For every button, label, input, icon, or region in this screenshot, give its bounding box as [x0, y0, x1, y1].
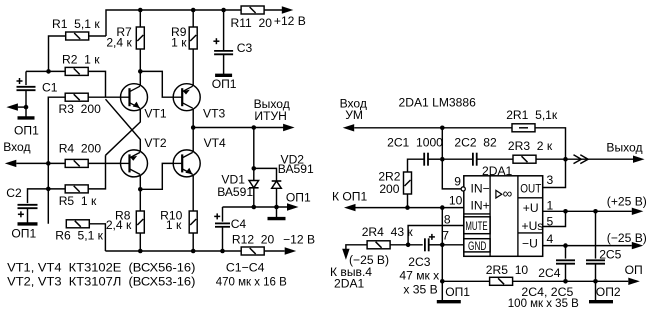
svg-text:200: 200 [379, 182, 399, 196]
transistor VT2 [120, 150, 148, 177]
svg-text:2С3: 2С3 [408, 255, 430, 269]
wire OP rail to 2R5 [442, 280, 489, 282]
svg-text:+U: +U [523, 201, 539, 215]
junction R7/VT1 collector tee [138, 69, 143, 74]
resistor 2R2 [404, 172, 412, 194]
wire R9 to VT3 emitter [192, 49, 194, 86]
wire R3 right to VT1 base [88, 96, 120, 98]
wire C2 top lead [28, 189, 49, 203]
resistor R11 [241, 6, 264, 14]
wire 2C1 branch [408, 159, 424, 172]
wire VT4 emitter to R10 [192, 176, 194, 211]
junction MUTE/2R4/2C3 [406, 243, 411, 248]
capacitor C4 [214, 213, 230, 226]
arrow +25V [632, 208, 644, 215]
svg-text:2DA1: 2DA1 [334, 277, 365, 291]
junction IN+/ground branch [440, 205, 445, 210]
wire pin8 MUTE [408, 226, 464, 245]
svg-text:R4 200: R4 200 [59, 142, 102, 156]
ground OP1 right schematic [437, 300, 461, 303]
wire C4 bottom lead [222, 227, 224, 251]
junction VT2 collector node [138, 187, 143, 192]
svg-text:+12 В: +12 В [274, 14, 306, 28]
resistor R4 [65, 159, 88, 167]
svg-text:Выход: Выход [606, 140, 642, 154]
junction output node right [563, 157, 568, 162]
svg-text:2С4: 2С4 [538, 266, 560, 280]
svg-text:ВА591: ВА591 [278, 162, 314, 176]
svg-text:C1: C1 [42, 81, 58, 95]
junction rail/C4 [220, 249, 225, 254]
svg-text:−U: −U [522, 236, 538, 250]
svg-text:2R3 2 к: 2R3 2 к [508, 139, 553, 153]
svg-text:7: 7 [442, 229, 449, 243]
wire -25V row [543, 245, 632, 247]
svg-text:С1−С4: С1−С4 [226, 261, 265, 275]
ground OP1 under C1 [18, 116, 35, 119]
svg-text:MUTE: MUTE [465, 219, 487, 233]
wire 2C1 to junction [428, 158, 440, 160]
svg-text:R3 200: R3 200 [59, 102, 102, 116]
svg-text:х 35 В: х 35 В [403, 283, 437, 297]
svg-text:C2: C2 [6, 186, 22, 200]
wire R5 left to node [48, 188, 65, 190]
ground OP1 under C3 [215, 74, 232, 77]
chevron output direction [574, 155, 582, 164]
capacitor C3 [213, 38, 233, 54]
wire VT1 collector to VT3 base [140, 71, 173, 97]
wire IN+ node down to OP rail [441, 208, 443, 301]
resistor R2 [65, 67, 88, 75]
wire +25V row [543, 210, 632, 212]
svg-text:+Us: +Us [522, 219, 544, 233]
wire junction to 2C2 [445, 158, 473, 160]
resistor 2R5 [490, 277, 513, 285]
junction top rail / R7 [138, 8, 143, 13]
svg-text:2С1 1000: 2С1 1000 [387, 136, 443, 150]
arrow input UM [343, 124, 355, 131]
wire R1 left to R2 node [49, 36, 67, 71]
svg-text:ОП1: ОП1 [11, 227, 36, 241]
wire output to VD1 [253, 128, 255, 181]
wire R2 row C1 to R2 [26, 70, 65, 72]
svg-text:8: 8 [444, 213, 451, 227]
wire VD2 bottom [276, 188, 278, 207]
junction OP rail/2C5 [593, 279, 598, 284]
junction VD1 bottom [252, 205, 257, 210]
wire R5 right riser to VT1 emitter diag [88, 155, 105, 189]
wire 2R3 to output arrow [536, 158, 634, 160]
resistor R3 [65, 93, 88, 101]
wire input row to R4 [16, 162, 65, 164]
wire R3 left down to input node [48, 97, 65, 224]
svg-text:ОП1: ОП1 [286, 190, 311, 204]
svg-text:1 к: 1 к [166, 218, 182, 232]
arrow Vyhod right [633, 156, 645, 163]
arrow -25V [632, 242, 644, 249]
diode VD1 BA591 [249, 181, 259, 188]
junction ITUN output node [191, 125, 196, 130]
resistor R12 [241, 247, 264, 255]
svg-text:R6 5,1 к: R6 5,1 к [55, 229, 103, 243]
junction output/VD branch [252, 125, 257, 130]
junction input node [46, 161, 51, 166]
junction R5/C2 node [46, 187, 51, 192]
arrow Vyhod ITUN [283, 124, 295, 131]
wire R4 right to VT2 base [88, 162, 120, 164]
svg-text:2,4 к: 2,4 к [106, 218, 132, 232]
junction 2C3/GND pin [440, 243, 445, 248]
wire C2 bottom lead [27, 208, 29, 223]
svg-text:ВА591: ВА591 [217, 185, 253, 199]
svg-text:9: 9 [454, 175, 461, 189]
capacitor 2C2 [473, 153, 477, 166]
arrow +12V [282, 6, 294, 13]
resistor R9 [189, 27, 197, 49]
wire input node down to caps row [441, 128, 443, 159]
resistor 2R1 [512, 124, 535, 132]
svg-text:Вход: Вход [3, 140, 30, 154]
junction rail/R8 [138, 249, 143, 254]
svg-text:47 мк х: 47 мк х [399, 269, 439, 283]
ground OP1 under C2 [18, 222, 38, 225]
svg-text:R2 1 к: R2 1 к [62, 53, 100, 67]
svg-text:VT1, VT4 КТ3102Е (ВСХ56-16): VT1, VT4 КТ3102Е (ВСХ56-16) [7, 261, 195, 275]
transistor VT1 [120, 84, 148, 111]
svg-text:2R4 43 к: 2R4 43 к [362, 225, 414, 239]
capacitor 2C4 [556, 260, 575, 263]
svg-text:VT4: VT4 [204, 136, 226, 150]
wire 2C4 bottom lead [565, 264, 567, 282]
junction +25V/2R1 col [563, 209, 568, 214]
svg-text:VT2: VT2 [144, 136, 166, 150]
resistor R10 [189, 211, 197, 233]
svg-text:VT3: VT3 [203, 107, 225, 121]
wire IN+ row [356, 207, 464, 209]
wire C4 top lead [222, 207, 224, 222]
wire 2R5 to OP arrow [513, 280, 629, 282]
junction top rail / R9 [191, 8, 196, 13]
wire pin5 to +U [543, 211, 566, 226]
wire pin3 OUT riser [543, 159, 566, 187]
capacitor 2C5 [586, 260, 605, 263]
wire diagonal R5 node to VT1 emitter [106, 109, 141, 155]
wire VT3 collector to node [192, 109, 194, 152]
wire 2C3 right to junction [429, 244, 442, 246]
svg-text:К ОП1: К ОП1 [332, 189, 368, 203]
junction node A R2/C1 [46, 69, 51, 74]
wire OP2 ground lead [595, 281, 597, 301]
svg-text:УМ: УМ [345, 108, 363, 122]
wire R6 right to bottom rail [89, 224, 105, 251]
junction VD2 bottom [274, 205, 279, 210]
svg-text:GND: GND [468, 239, 487, 253]
svg-text:∞: ∞ [503, 186, 513, 201]
pin 9 inversion circle [461, 187, 465, 191]
svg-text:ОП1: ОП1 [212, 77, 237, 91]
resistor 2R4 [367, 241, 390, 249]
wire C3 to ground [223, 54, 225, 74]
resistor R6 [66, 220, 89, 228]
wire R7 to VT1 collector [139, 49, 141, 86]
svg-text:R11 20: R11 20 [231, 16, 273, 30]
wire ground lead VD node [276, 207, 278, 218]
wire 2R4 to 2C3 [390, 244, 423, 246]
junction caps row [440, 157, 445, 162]
junction rail/R10 [191, 249, 196, 254]
capacitor C2 [18, 205, 38, 218]
junction +25V/2C5 col [593, 209, 598, 214]
wire rail to R7 [139, 10, 141, 27]
svg-text:2,4 к: 2,4 к [106, 36, 132, 50]
wire C1 bottom lead [25, 90, 27, 117]
arrow OP [628, 278, 640, 285]
capacitor 2C3 [425, 234, 435, 251]
svg-text:C4: C4 [231, 217, 247, 231]
transistor VT3 [173, 84, 201, 111]
junction 2R2/IN+ row [405, 205, 410, 210]
wire rail to C3 [223, 10, 225, 51]
junction OP rail/2C4 [563, 279, 568, 284]
svg-text:2С5: 2С5 [599, 248, 621, 262]
wire VD1 bottom [253, 188, 255, 207]
svg-text:2С2 82: 2С2 82 [454, 136, 497, 150]
wire OP1 arrow lead [18, 106, 26, 108]
wire to VD2 top [254, 168, 277, 181]
svg-text:(+25 В): (+25 В) [607, 194, 647, 208]
svg-text:2DA1 LM3886: 2DA1 LM3886 [399, 96, 477, 110]
svg-text:1 к: 1 к [171, 36, 187, 50]
svg-text:ОП1: ОП1 [445, 285, 470, 299]
wire VT2 collector to VT4 base [140, 163, 173, 189]
svg-text:ИТУН: ИТУН [254, 109, 287, 123]
junction OP rail left [440, 279, 445, 284]
wire 2R4 left to -25V arrow [346, 245, 367, 249]
arrow to -25V [342, 249, 349, 260]
svg-text:470 мк х 16 В: 470 мк х 16 В [216, 274, 287, 288]
svg-text:100 мк х 35 В: 100 мк х 35 В [508, 296, 579, 310]
wire input UM row [354, 127, 511, 129]
svg-text:4: 4 [547, 232, 554, 246]
svg-text:R5 1 к: R5 1 к [59, 194, 97, 208]
wire 2C5 top lead [595, 211, 597, 258]
wire output row [193, 127, 283, 129]
resistor R5 [65, 185, 88, 193]
junction VD1/VD2 top [252, 166, 257, 171]
wire C1 top lead [25, 71, 27, 85]
wire R1 right to rail riser [88, 35, 106, 37]
svg-text:2R1 5,1к: 2R1 5,1к [506, 108, 558, 122]
wire bottom -12V rail [105, 250, 241, 252]
wire R8 to bottom rail [139, 233, 141, 251]
wire 2C5 bottom lead [595, 264, 597, 282]
wire VT2 collector to R8 [139, 176, 141, 211]
wire 2C4 top lead [565, 246, 567, 259]
svg-text:(−25 В): (−25 В) [607, 231, 647, 245]
wire 2R1 right riser [535, 128, 565, 159]
svg-text:ОП2: ОП2 [596, 285, 621, 299]
wire R2 right riser to VT1 base node [88, 71, 105, 97]
svg-text:IN+: IN+ [471, 199, 490, 213]
diode VD2 BA591 [272, 181, 282, 188]
svg-text:1: 1 [547, 199, 554, 213]
wire 2C2 to 2R3 [477, 158, 513, 160]
svg-text:−12 В: −12 В [283, 233, 315, 247]
junction -25V/2C4 col [563, 243, 568, 248]
junction input/feedback [440, 126, 445, 131]
svg-text:ОП1: ОП1 [14, 123, 39, 137]
svg-text:3: 3 [547, 173, 554, 187]
wire rail to R9 [192, 10, 194, 27]
svg-text:IN−: IN− [471, 181, 490, 195]
arrow -12V [285, 247, 297, 254]
wire OP1 node row [223, 206, 289, 208]
capacitor C1 [17, 78, 36, 90]
junction top rail / C3 [221, 8, 226, 13]
resistor R1 [66, 32, 89, 40]
wire top +12V rail [106, 10, 283, 36]
capacitor 2C1 [424, 153, 428, 166]
op-amp symbol inside IC [496, 186, 513, 201]
svg-text:R12 20: R12 20 [232, 233, 275, 247]
svg-text:VT1: VT1 [144, 107, 166, 121]
junction C1/OP1 arrow [24, 105, 29, 110]
svg-text:OUT: OUT [520, 181, 542, 195]
arrow OP1 left top [6, 103, 18, 110]
svg-text:10: 10 [449, 194, 463, 208]
ground OP2 [589, 300, 613, 303]
wire R10 to bottom rail [192, 233, 194, 251]
arrow OP1 right [287, 203, 299, 210]
svg-text:ОП: ОП [625, 263, 643, 277]
svg-text:2DA1: 2DA1 [482, 164, 513, 178]
svg-text:C3: C3 [237, 41, 253, 55]
op-amp IC 2DA1 LM3886 box [464, 176, 543, 256]
arrow K OP1 [344, 204, 356, 211]
svg-text:2R5 10: 2R5 10 [486, 263, 529, 277]
wire 2R2 bottom [407, 194, 409, 208]
svg-text:VT2, VT3 КТ3107Л (ВСХ53-16): VT2, VT3 КТ3107Л (ВСХ53-16) [7, 274, 195, 288]
transistor VT4 [173, 150, 201, 177]
resistor R8 [136, 211, 144, 233]
wire pin7 GND [442, 244, 464, 246]
wire diagonal VT1base node to VT2 emitter [106, 99, 141, 152]
wire caps junction to pin9 [442, 159, 461, 189]
resistor R7 [136, 27, 144, 49]
svg-text:R1 5,1 к: R1 5,1 к [52, 17, 100, 31]
arrow input Vhod [5, 160, 16, 167]
resistor 2R3 [513, 155, 536, 163]
ground OP1 under diodes [268, 217, 286, 220]
wire R12 to arrow [264, 250, 285, 252]
